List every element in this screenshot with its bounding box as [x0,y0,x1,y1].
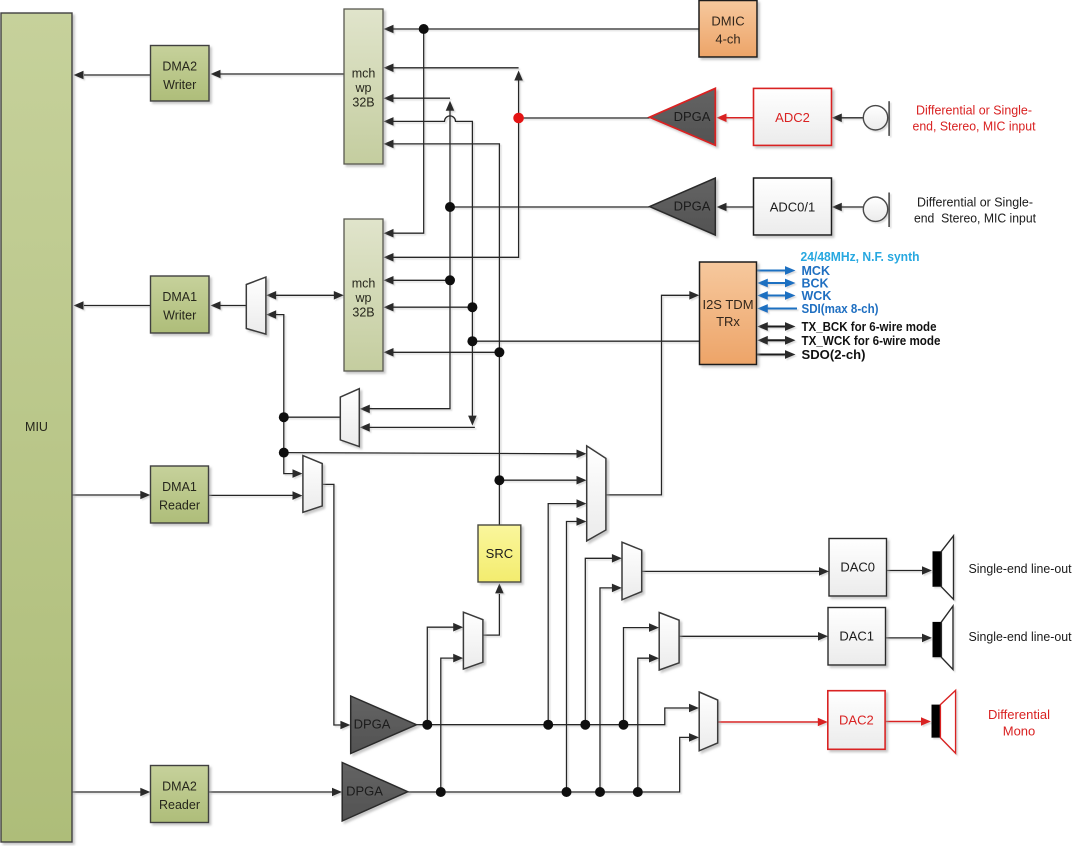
svg-text:wp: wp [355,291,372,305]
svg-text:end Stereo, MIC input: end Stereo, MIC input [914,211,1036,226]
wire DMA2Reader to DPGA2 [209,788,343,797]
port arrow SDI in [757,304,797,313]
block I2S TDM TRx [700,262,757,365]
wire double arrow mux M1 and mch2 [266,291,344,300]
wire mic2 to ADC2 [832,114,864,123]
wire node D8 down to mux M3 input1 [284,417,303,478]
svg-text:ADC2: ADC2 [775,110,810,125]
wire node D4 down to node D5 and I2S TRx left [472,307,699,341]
mic for ADC0/1 [863,193,889,228]
port arrow MCK [757,266,796,275]
svg-text:mch: mch [352,277,376,291]
wire mic01 to ADC01 [832,203,864,212]
svg-text:Differential or Single-: Differential or Single- [917,195,1033,210]
wire mux M1 to DMA1Writer [211,301,247,310]
svg-text:DPGA: DPGA [674,109,711,124]
svg-text:DPGA: DPGA [346,784,383,799]
wire node D2 down to mch2 input3 [384,207,451,285]
amp DPGA1 playback [351,696,417,754]
node D1 DMIC branch [419,24,429,34]
svg-text:DMA1: DMA1 [162,290,197,304]
node D7 SRC net branch M5 [494,475,504,485]
wire node D6 to mch2 input5 [384,348,500,357]
wire SRC output up to mch1 input5 [384,140,500,525]
svg-text:DPGA: DPGA [354,717,391,732]
block SRC [478,525,521,582]
wire bus1 DPGA1 output to mux M8 input1 [417,704,700,725]
svg-text:TX_BCK for 6-wire mode: TX_BCK for 6-wire mode [802,320,937,334]
svg-text:DMA2: DMA2 [162,780,197,794]
wire DAC1 to speaker1 [886,634,933,643]
block DMA1 Reader [151,466,209,523]
mic for ADC2 [863,101,889,136]
block DMA1 Writer [151,276,210,333]
svg-text:DMA2: DMA2 [162,60,197,74]
svg-text:Differential or Single-: Differential or Single- [916,103,1032,118]
wire DPGA-ADC01 output to node D2 [450,206,650,208]
svg-text:32B: 32B [352,306,374,320]
wire MIU to DMA1Reader [73,491,151,500]
port arrow SDO out [757,350,796,359]
wire bus2 DPGA2 output to mux M8 input2 [408,733,699,792]
wire node D14 up to mux M4 input2 [441,654,463,792]
wire mux M2 output to node D8 [284,416,341,418]
node D10 bus1 branch M4 [422,720,432,730]
wire node D16 up to mux M6 input2 [600,584,622,792]
wire DAC2 to speaker2 red [885,717,931,726]
block DMA2 Writer [151,46,210,102]
wire mux M8 output to DAC2 red [718,718,828,727]
node D3 ADC01 net branch mch2 [445,275,455,285]
svg-text:wp: wp [355,81,372,95]
svg-text:end, Stereo, MIC input: end, Stereo, MIC input [913,119,1036,134]
block DAC0 [829,539,887,597]
block MIU [1,13,72,842]
block mch wp 32B upper [344,9,383,164]
wire ADC2 to DPGA red [717,114,754,123]
port arrow WCK double [757,291,795,300]
node D16 bus2 branch M6 [595,787,605,797]
wire mux M3 output down to DPGA1 [322,484,350,729]
svg-text:SDI(max 8-ch): SDI(max 8-ch) [802,302,879,316]
mux M3 [303,456,322,513]
block DAC1 [828,608,886,666]
wire DAC0 to speaker0 [887,566,933,575]
svg-text:SDO(2-ch): SDO(2-ch) [802,348,866,362]
node RD red junction ADC2 net [513,113,524,124]
port arrow TX_BCK double [757,322,795,331]
block mch wp 32B lower [344,219,383,371]
wire I2S RX vertical to mch1 input4 with hop [384,116,473,307]
port arrow TX_WCK double [757,336,795,345]
wire node D10 up to mux M4 input1 [427,623,463,725]
node D5 I2S RX branch [467,336,477,346]
port arrow BCK double [757,279,795,288]
wire node D4 to mch2 input4 [384,303,473,312]
wire node D9 to mux M5 input1 [284,450,587,459]
wire DPGA-ADC2 output to node RD [519,117,650,119]
svg-text:WCK: WCK [802,289,832,303]
svg-text:DMA1: DMA1 [162,480,197,494]
block ADC0/1 [754,178,832,235]
amp DPGA2 playback [342,763,408,822]
wire node D2 up to mch1 input3 [384,94,455,207]
node D17 bus2 branch M7 [633,787,643,797]
block DAC2 [828,691,885,750]
svg-text:Writer: Writer [163,309,196,323]
mux M7 [659,613,679,671]
speaker for DAC1 [933,606,954,670]
wire mux M4 output to SRC input [483,583,504,635]
wire node D15 up to mux M5 input4 [567,517,587,792]
svg-text:Differential: Differential [988,707,1050,722]
mux M4 [463,612,483,669]
wire DMA1Reader to mux M3 [209,491,303,500]
mux M2 [340,389,359,447]
svg-text:ADC0/1: ADC0/1 [770,200,816,215]
svg-text:Mono: Mono [1003,724,1036,739]
wire node D17 up to mux M7 input2 [638,654,659,792]
speaker for DAC0 [933,536,954,600]
node D13 bus1 branch M7 [619,720,629,730]
svg-text:SRC: SRC [486,546,513,561]
block DMIC 4-ch [699,1,757,58]
svg-text:Single-end line-out: Single-end line-out [969,629,1072,644]
wire MIU to DMA2Reader [73,788,151,797]
wire node D5 down arrow onto M2 feed line [468,341,477,425]
wire DMIC to mch1 input1 [384,25,700,34]
wire ADC01 to DPGA [717,203,754,212]
wire DMA1Writer to MIU [74,301,151,310]
svg-text:24/48MHz, N.F. synth: 24/48MHz, N.F. synth [801,250,920,264]
svg-text:DAC2: DAC2 [839,713,874,728]
amp DPGA for ADC2 [650,88,716,145]
node D8 M2 output branch [279,412,289,422]
mux M1 [246,277,266,334]
node D2 ADC01 net [445,202,455,212]
svg-text:TX_WCK for 6-wire mode: TX_WCK for 6-wire mode [802,334,941,348]
svg-text:MIU: MIU [25,420,48,434]
wire node D7 to mux M5 input2 [499,476,586,485]
wire DMIC branch to mch2 input1 [384,29,424,238]
node D6 SRC net branch mch2 [494,347,504,357]
wire mch1 to DMA2Writer [211,70,345,79]
node D4 I2S RX branch mch2 [467,302,477,312]
amp DPGA for ADC0/1 [650,178,716,235]
wire node D8 up to mux M1 input2 [266,310,284,417]
svg-text:DAC1: DAC1 [839,629,874,644]
wire mux M6 output to DAC0 [642,567,829,576]
svg-text:4-ch: 4-ch [715,32,740,47]
svg-text:TRx: TRx [716,314,740,329]
block ADC2 [754,88,832,145]
svg-text:32B: 32B [352,96,374,110]
node D14 bus2 branch M4 [436,787,446,797]
mux M8 [699,692,718,751]
node D11 bus1 branch M5 [543,720,553,730]
svg-text:Writer: Writer [163,78,196,92]
speaker for DAC2 red [932,690,956,753]
svg-text:mch: mch [352,67,376,81]
wire node D11 up to mux M5 input3 [548,499,586,724]
svg-text:Reader: Reader [159,798,200,812]
wire node D3 down to mux M2 top input [360,280,450,413]
svg-text:DAC0: DAC0 [840,560,875,575]
wire into mux M2 bottom input [360,423,475,432]
node D9 branch to M5 [279,448,289,458]
wire mux M5 output up to I2S TRx input [606,291,699,495]
wire node D12 up to mux M6 input1 [585,554,622,725]
svg-text:DPGA: DPGA [674,199,711,214]
wire node D13 up to mux M7 input1 [624,623,660,724]
mux M6 [622,542,642,600]
svg-text:Reader: Reader [159,499,200,513]
wire mux M7 output to DAC1 [679,632,828,641]
wire node RD down to mch2 input2 [384,118,519,262]
node D15 bus2 branch M5 [562,787,572,797]
mux M5 [587,446,606,541]
svg-text:Single-end line-out: Single-end line-out [969,561,1072,576]
node D12 bus1 branch M6 [580,720,590,730]
wire node RD up to mch1 input2 [384,64,523,118]
svg-text:DMIC: DMIC [711,14,744,29]
svg-text:I2S TDM: I2S TDM [702,297,753,312]
block DMA2 Reader [151,766,209,823]
wire DMA2Writer to MIU [74,71,151,80]
